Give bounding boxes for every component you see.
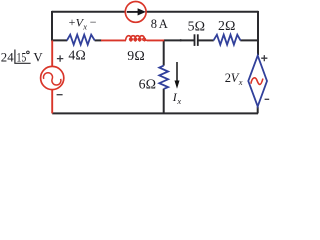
svg-text:x: x <box>238 77 243 87</box>
svg-text:2Ω: 2Ω <box>218 18 236 33</box>
svg-text:15: 15 <box>17 50 27 64</box>
svg-text:9Ω: 9Ω <box>127 48 145 63</box>
svg-text:6Ω: 6Ω <box>139 76 157 91</box>
svg-text:x: x <box>82 21 87 31</box>
svg-text:x: x <box>176 96 181 106</box>
svg-text:+: + <box>69 15 76 29</box>
svg-text:A: A <box>159 17 168 31</box>
svg-text:V: V <box>33 50 43 64</box>
svg-text:8: 8 <box>151 17 157 31</box>
svg-text:−: − <box>90 15 97 29</box>
svg-text:4Ω: 4Ω <box>68 48 86 63</box>
svg-text:5Ω: 5Ω <box>188 18 206 33</box>
svg-text:24: 24 <box>1 50 14 64</box>
